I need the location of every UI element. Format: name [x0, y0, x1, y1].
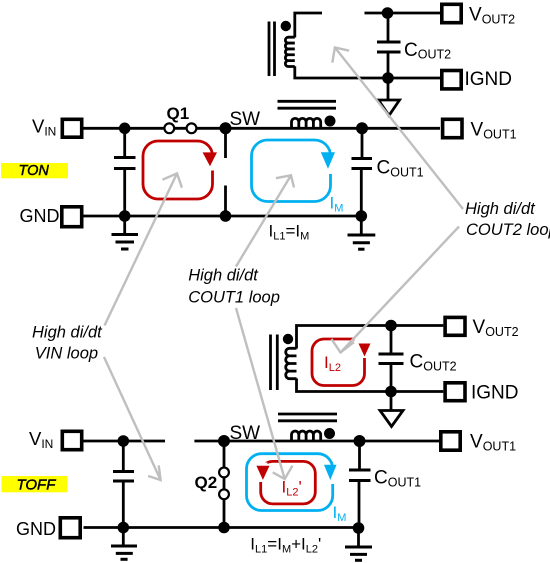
svg-text:COUT2 loop: COUT2 loop [466, 221, 550, 239]
svg-text:High di/dt: High di/dt [32, 324, 103, 342]
svg-text:VIN loop: VIN loop [35, 345, 98, 363]
svg-text:COUT1 loop: COUT1 loop [188, 289, 280, 307]
svg-text:IGND: IGND [465, 69, 513, 90]
svg-text:Q2: Q2 [195, 473, 218, 492]
svg-text:Q1: Q1 [167, 104, 190, 123]
svg-text:GND: GND [20, 206, 60, 226]
svg-text:TOFF: TOFF [17, 477, 57, 494]
svg-text:TON: TON [19, 163, 50, 179]
svg-text:SW: SW [230, 423, 261, 444]
svg-text:High di/dt: High di/dt [465, 200, 536, 218]
svg-text:High di/dt: High di/dt [188, 267, 259, 285]
svg-text:GND: GND [16, 519, 56, 539]
svg-text:IGND: IGND [471, 383, 519, 404]
svg-text:SW: SW [230, 109, 261, 130]
